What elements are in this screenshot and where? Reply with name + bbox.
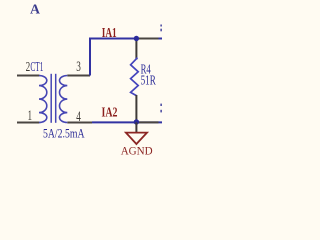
transformer CT1 pin 3 lead — [67, 75, 90, 77]
transformer CT1 core line right — [55, 74, 57, 123]
wire IA1 horizontal — [89, 38, 162, 40]
transformer CT1 pin 1 lead — [17, 122, 40, 124]
ground AGND triangle — [126, 133, 147, 144]
resistor R4 zigzag body — [131, 58, 139, 96]
transformer CT1 secondary winding (right) — [60, 76, 68, 123]
svg-text:IA2: IA2 — [102, 106, 118, 121]
wire overlay dark segment right of junction (IA2) — [137, 121, 159, 123]
resistor R4 bottom pin — [135, 95, 137, 122]
transformer CT1 core line left — [50, 74, 52, 123]
ground stub wire — [135, 122, 137, 132]
svg-text:3: 3 — [76, 59, 81, 75]
svg-text:A: A — [30, 3, 41, 18]
svg-text:51R: 51R — [141, 73, 157, 88]
cut-off text at right edge (bottom) — [160, 104, 162, 106]
transformer CT1 primary winding (left) — [39, 76, 47, 123]
svg-text:5A/2.5mA: 5A/2.5mA — [43, 126, 85, 141]
wire vertical from pin 3 up to IA1 — [89, 39, 91, 76]
junction dot on IA2 — [134, 119, 139, 124]
resistor R4 top pin — [135, 39, 137, 60]
cut-off text at right edge (top) — [160, 25, 162, 27]
wire IA2 horizontal — [92, 121, 162, 123]
transformer CT1 pin 2 lead — [17, 75, 40, 77]
svg-text:IA1: IA1 — [102, 26, 117, 41]
svg-text:AGND: AGND — [121, 144, 153, 157]
wire overlay dark segment right of junction (IA1) — [137, 38, 159, 40]
svg-text:4: 4 — [76, 109, 81, 125]
svg-text:1: 1 — [28, 108, 33, 124]
junction dot on IA1 — [134, 36, 139, 41]
svg-text:CT1: CT1 — [30, 60, 43, 75]
transformer CT1 pin 4 lead — [67, 122, 92, 124]
